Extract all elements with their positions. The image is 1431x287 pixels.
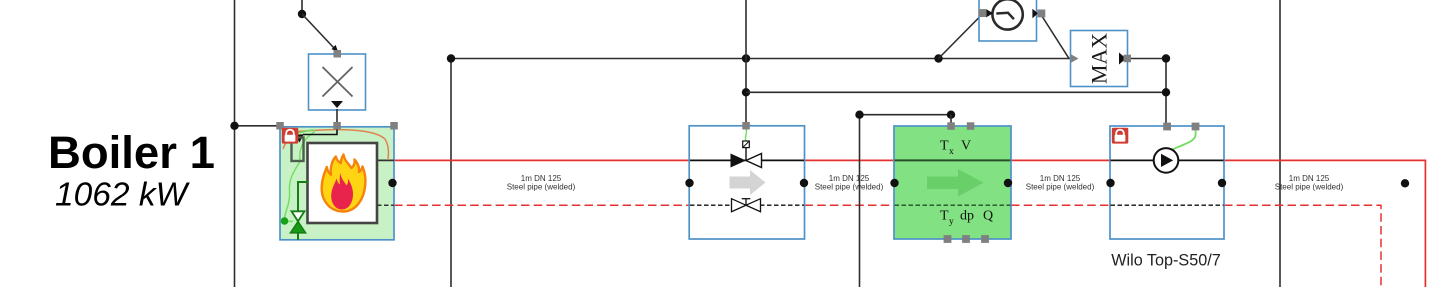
wire: vertical line x=746 from top to valve V1 top connector xyxy=(745,0,747,126)
boiler measurement wire (green) left side xyxy=(285,130,315,218)
boiler padlock xyxy=(282,128,299,144)
port: meter bottom connector 3 xyxy=(981,235,989,243)
pipe: return meter to pump xyxy=(1011,204,1110,206)
svg-text:Q: Q xyxy=(983,209,993,224)
heat meter block M1 xyxy=(894,126,1011,239)
svg-text:Steel pipe (welded): Steel pipe (welded) xyxy=(507,183,576,192)
wire: MAX output to corner x=1166 xyxy=(1128,58,1166,60)
wire: left vertical signal line x=234 xyxy=(234,0,236,287)
port: valve top connector xyxy=(742,122,750,130)
valve internal return line xyxy=(690,204,804,206)
node: far right pipe dot xyxy=(1401,179,1409,187)
port: timer output connector xyxy=(1037,10,1045,18)
boiler check valve piping (dark green L) xyxy=(298,182,309,211)
boiler control wire (orange) to supply sensor xyxy=(283,130,388,160)
pump internal supply line xyxy=(1111,159,1224,161)
wire: stub down to meter top connector xyxy=(950,115,952,126)
control valve right triangle (outline) xyxy=(746,154,762,168)
wire: horizontal link (859.5,114.7) to (951,114.7) xyxy=(860,114,952,116)
timer block CLK xyxy=(979,0,1037,41)
valve actuator box xyxy=(743,141,750,148)
arrowhead into burner xyxy=(295,134,304,142)
pump rotor triangle xyxy=(1161,154,1173,167)
node: junction at (1166,92) xyxy=(1162,88,1170,96)
svg-text:Boiler 1: Boiler 1 xyxy=(48,127,215,178)
pump speed wire (green) xyxy=(1167,131,1196,154)
wire: diagonal from timer output down to MAX input xyxy=(1043,17,1070,59)
valve stem xyxy=(745,148,747,160)
node: green measurement node xyxy=(281,217,289,225)
valve actuator green wire xyxy=(745,129,746,141)
pipe: return (dashed red) boiler to valve xyxy=(394,204,689,206)
wire: vertical measurement line x=859.5 down to bottom xyxy=(859,115,861,287)
boiler internal supply stub xyxy=(377,159,394,161)
svg-text:y: y xyxy=(949,217,954,227)
wire: vertical x=1166 from 58 down to pump P1 top connector xyxy=(1165,59,1167,127)
arrowhead (gray) into MAX input xyxy=(1071,54,1079,63)
return valve bowtie xyxy=(732,199,761,212)
wire: horizontal signal line y=92 from 746 to 1166 xyxy=(746,91,1166,93)
svg-text:Steel pipe (welded): Steel pipe (welded) xyxy=(1026,183,1095,192)
port: pump top connector 2 xyxy=(1192,123,1200,131)
svg-text:1062 kW: 1062 kW xyxy=(55,177,191,214)
port: meter top connector 2 xyxy=(967,122,975,130)
node: pump left port dot xyxy=(1106,179,1114,187)
port: meter bottom connector 2 xyxy=(962,235,970,243)
pump circle xyxy=(1154,148,1179,173)
boiler fire chamber (white box) xyxy=(308,143,378,223)
pipe: supply (solid red) boiler to valve xyxy=(394,159,689,161)
node: valve right port dot xyxy=(800,179,808,187)
multiplier block X1 xyxy=(309,54,366,110)
node: meter left port dot xyxy=(890,179,898,187)
pump block P1 xyxy=(1110,126,1224,239)
boiler burner input line (black) xyxy=(303,127,337,135)
node: corner at (451,58) xyxy=(447,54,455,62)
valve internal supply line xyxy=(690,159,804,161)
pump internal return line xyxy=(1111,204,1224,206)
X1 bottom output triangle xyxy=(331,101,343,108)
wire: right vertical signal line x=1280 xyxy=(1279,0,1281,287)
port: boiler top-middle connector xyxy=(333,122,341,130)
flow direction arrow (gray) xyxy=(730,170,766,195)
svg-text:dp: dp xyxy=(960,209,974,224)
wire: X1 output down to boiler top connector xyxy=(336,109,338,124)
boiler internal return stub xyxy=(377,204,394,206)
check valve upper triangle (white, down) xyxy=(292,211,305,221)
flame outer xyxy=(322,155,366,212)
green wire tap to check valve xyxy=(285,220,294,222)
pipe: supply pump to right corner and down xyxy=(1224,160,1425,287)
port: boiler top-right connector xyxy=(390,122,398,130)
pipe: return valve to meter xyxy=(805,204,895,206)
wire: horizontal signal line y=58 from 451 to MAX input xyxy=(451,58,1070,60)
timer output triangle xyxy=(1032,9,1038,19)
node: valve left port dot xyxy=(685,179,693,187)
control valve left triangle (solid) xyxy=(731,154,747,168)
node: junction at (746,92) xyxy=(742,88,750,96)
svg-text:V: V xyxy=(961,139,971,154)
wire: short vertical from top at x=302 xyxy=(301,0,303,14)
wire: diagonal from (938,58) up to timer CLK input xyxy=(939,17,981,59)
boiler B1 body xyxy=(280,127,394,240)
flame core xyxy=(331,173,353,210)
meter internal return line xyxy=(895,204,1011,206)
node: junction at (938,58) xyxy=(934,54,942,62)
wire: diagonal into multiplier X1 top port xyxy=(302,14,334,48)
boiler burner control rect xyxy=(292,138,304,162)
svg-text:T: T xyxy=(940,139,949,154)
pipe: return pump to right corner and down xyxy=(1224,205,1381,287)
valve block V1 xyxy=(689,126,804,239)
pump padlock xyxy=(1112,128,1129,144)
port: boiler top-left connector xyxy=(276,122,284,130)
svg-text:Steel pipe (welded): Steel pipe (welded) xyxy=(815,183,884,192)
node: junction at (859.5,114.7) xyxy=(855,111,863,119)
node: junction at (302,14) xyxy=(298,10,306,18)
MAX block xyxy=(1071,31,1128,87)
svg-text:T: T xyxy=(940,209,949,224)
node: junction at (746,58) xyxy=(742,54,750,62)
MAX output triangle xyxy=(1119,53,1126,65)
node: meter right port dot xyxy=(1004,179,1012,187)
port: MAX output connector xyxy=(1124,55,1132,63)
svg-text:Wilo Top-S50/7: Wilo Top-S50/7 xyxy=(1111,252,1220,270)
check valve stub to bottom edge xyxy=(297,233,299,240)
port: X1 top connector xyxy=(334,50,342,58)
wire: vertical signal line x=451 lower run xyxy=(450,59,452,287)
arrowhead into X1 top port xyxy=(332,45,339,52)
port: meter top connector 1 xyxy=(947,122,955,130)
port: pump top connector 1 xyxy=(1163,123,1171,131)
svg-text:Steel pipe (welded): Steel pipe (welded) xyxy=(1275,183,1344,192)
node: boiler supply port dot xyxy=(388,179,396,187)
svg-text:MAX: MAX xyxy=(1087,33,1112,84)
pipe: supply valve to meter xyxy=(805,159,895,161)
port: meter bottom connector 1 xyxy=(944,235,952,243)
meter flow arrow xyxy=(927,169,984,197)
node: corner at (1166,58) xyxy=(1162,54,1170,62)
meter internal supply line xyxy=(895,159,1011,161)
pipe: supply meter to pump xyxy=(1011,159,1110,161)
wire: branch to boiler top-left connector xyxy=(235,125,281,127)
port: timer input connector xyxy=(979,9,987,17)
node: junction at (951,114.7) xyxy=(947,111,955,119)
svg-text:x: x xyxy=(949,147,954,157)
node: pump right port dot xyxy=(1218,179,1226,187)
arrowhead into timer input xyxy=(986,9,993,18)
check valve lower triangle (green, up) xyxy=(291,222,306,233)
node: junction at (234,126) xyxy=(230,122,238,130)
